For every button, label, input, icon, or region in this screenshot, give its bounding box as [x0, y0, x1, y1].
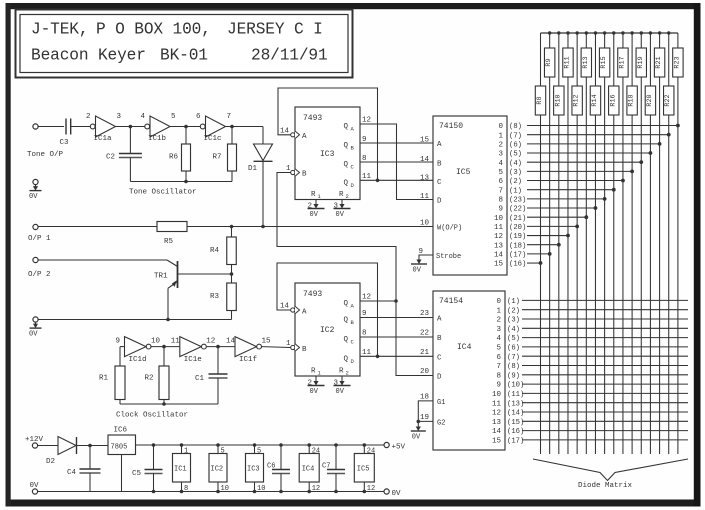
svg-text:(14): (14) [507, 410, 524, 418]
svg-text:Tone Oscillator: Tone Oscillator [129, 189, 197, 197]
node TR1 base junction [230, 272, 234, 276]
svg-text:(7): (7) [507, 354, 520, 362]
svg-text:R19: R19 [637, 56, 645, 68]
resistor R15 [599, 33, 609, 77]
IC4 output 1 pin (2) matrix row wire [496, 307, 688, 315]
svg-text:(6): (6) [507, 345, 520, 353]
inverter IC1d [116, 337, 161, 365]
IC4 output 9 pin (10) matrix row wire [496, 382, 688, 390]
svg-text:(16): (16) [507, 428, 524, 436]
svg-text:2: 2 [86, 113, 91, 121]
svg-text:12: 12 [362, 294, 371, 302]
node C1 junction [216, 345, 220, 349]
svg-text:IC3: IC3 [320, 150, 335, 159]
node +5V bus junction col 13 [658, 31, 661, 34]
svg-text:4: 4 [496, 335, 501, 343]
svg-text:3: 3 [498, 151, 503, 159]
ground 0V below Tone O/P [29, 179, 42, 201]
svg-text:24: 24 [312, 448, 320, 456]
IC3 pin B clock input [286, 165, 307, 179]
wire IC1d out to IC1e [151, 346, 180, 348]
IC3 reset pin 3 ground [334, 200, 351, 220]
svg-text:12: 12 [367, 485, 375, 493]
node R2 junction [162, 345, 166, 349]
svg-text:B: B [302, 346, 307, 354]
wire matrix column R11 down [567, 77, 569, 454]
svg-text:D1: D1 [248, 165, 258, 173]
node +5V bus junction col 4 [575, 31, 578, 34]
svg-text:R21: R21 [655, 56, 663, 68]
IC4 output 5 pin (6) matrix row wire [496, 345, 688, 353]
IC5 input 15 pin (16) wire to matrix column [494, 261, 542, 269]
wire matrix column R21 down [659, 77, 661, 454]
IC4 output 6 pin (7) matrix row wire [496, 354, 688, 362]
capacitor C1 [195, 347, 228, 404]
svg-text:8: 8 [362, 155, 367, 163]
counter IC3 7493 body [295, 107, 360, 200]
node C4 junction [88, 444, 92, 448]
svg-text:3: 3 [334, 203, 339, 211]
IC5 input 2 pin (6) wire to matrix column [498, 141, 661, 149]
node +5V bus junction col 6 [594, 31, 597, 34]
svg-text:15: 15 [420, 137, 430, 145]
svg-text:8: 8 [496, 372, 501, 380]
inverter IC1b [141, 113, 177, 143]
svg-text:R11: R11 [563, 56, 571, 68]
svg-text:R12: R12 [573, 94, 581, 106]
svg-text:B: B [437, 161, 442, 169]
svg-text:C: C [437, 179, 442, 187]
IC5 input 1 pin (7) wire to matrix column [498, 132, 670, 140]
wire IC1a out to IC1b [116, 126, 145, 128]
IC3 pin A clock input [280, 128, 307, 142]
svg-text:24: 24 [367, 448, 375, 456]
IC5 input 9 pin (22) wire to matrix column [498, 206, 597, 214]
svg-text:0V: 0V [413, 267, 422, 275]
svg-text:(5): (5) [507, 335, 520, 343]
svg-text:Clock Oscillator: Clock Oscillator [116, 412, 188, 420]
IC4 output 3 pin (4) matrix row wire [496, 326, 688, 334]
wire matrix column R17 down [622, 77, 624, 454]
IC5 input 10 pin (21) wire to matrix column [494, 215, 588, 223]
node D1 tap [261, 225, 265, 229]
capacitor C5 [132, 443, 163, 493]
svg-text:(21): (21) [509, 215, 526, 223]
svg-text:(5): (5) [509, 151, 522, 159]
svg-text:9: 9 [362, 310, 367, 318]
svg-text:13: 13 [420, 174, 430, 182]
svg-text:(13): (13) [507, 400, 524, 408]
svg-text:7: 7 [496, 363, 501, 371]
svg-text:R16: R16 [609, 94, 617, 106]
IC5 input 11 pin (20) wire to matrix column [494, 224, 579, 232]
svg-text:Q: Q [344, 179, 349, 187]
svg-text:12: 12 [494, 233, 503, 241]
IC5 input 4 pin (4) wire to matrix column [498, 160, 643, 168]
svg-text:14: 14 [494, 251, 504, 259]
wire TR1 base to R4/R3 node [178, 273, 232, 275]
wire matrix column R15 down [604, 77, 606, 454]
svg-text:(1): (1) [509, 187, 522, 195]
svg-text:IC1a: IC1a [94, 135, 113, 143]
terminal +12V input [25, 436, 44, 448]
node +5V bus junction col 8 [612, 31, 615, 34]
svg-text:5: 5 [496, 345, 501, 353]
svg-text:R2: R2 [145, 375, 154, 383]
svg-text:2: 2 [308, 203, 313, 211]
IC4 output 15 pin (17) matrix row wire [492, 438, 688, 446]
wire matrix column R23 down [677, 77, 679, 454]
resistor R17 [618, 33, 628, 77]
svg-text:9: 9 [496, 382, 501, 390]
svg-text:5: 5 [498, 169, 503, 177]
svg-text:(11): (11) [507, 391, 524, 399]
svg-text:3: 3 [496, 326, 501, 334]
svg-text:C1: C1 [195, 375, 205, 383]
node R6 junction [184, 125, 188, 129]
wire +5V distribution line [136, 444, 385, 446]
svg-text:Q: Q [344, 142, 349, 150]
svg-text:IC4: IC4 [457, 343, 472, 352]
svg-text:0V: 0V [310, 388, 319, 396]
svg-text:C: C [437, 354, 442, 362]
svg-text:4: 4 [141, 113, 146, 121]
svg-text:(23): (23) [509, 196, 526, 204]
IC5 input 8 pin (23) wire to matrix column [498, 196, 606, 204]
svg-text:5: 5 [257, 448, 261, 456]
svg-text:Strobe: Strobe [436, 253, 461, 261]
svg-text:Diode Matrix: Diode Matrix [578, 482, 633, 490]
IC4 output 10 pin (11) matrix row wire [492, 391, 688, 399]
IC4 output 8 pin (9) matrix row wire [496, 372, 688, 380]
svg-text:11: 11 [420, 193, 430, 201]
counter IC2 7493 body [295, 283, 360, 377]
IC3 QD feedback wire to pin A [278, 88, 378, 180]
svg-text:R: R [311, 368, 316, 376]
supply pins IC5 [354, 443, 375, 493]
IC4 output 0 pin (1) matrix row wire [496, 298, 688, 306]
IC3 reset pin 2 ground [308, 200, 325, 220]
wire IC1b out to IC1c [170, 126, 200, 128]
svg-text:7: 7 [498, 187, 503, 195]
IC3 pin B wire to IC2 QA [277, 173, 396, 302]
svg-text:11: 11 [362, 349, 372, 357]
svg-text:11: 11 [492, 400, 502, 408]
resistor R4 [210, 227, 236, 275]
svg-text:C6: C6 [267, 463, 275, 471]
svg-text:Q: Q [344, 300, 349, 308]
resistor R19 [636, 33, 646, 77]
resistor R16 [609, 33, 619, 115]
capacitor C7 [322, 443, 345, 493]
wire R5 to IC5 W input [187, 226, 433, 228]
svg-text:10: 10 [494, 215, 504, 223]
IC4 output 7 pin (8) matrix row wire [496, 363, 688, 371]
svg-text:R: R [339, 368, 344, 376]
svg-text:D: D [437, 374, 442, 382]
svg-text:R22: R22 [664, 94, 672, 106]
svg-text:IC4: IC4 [302, 466, 315, 474]
svg-text:28/11/91: 28/11/91 [251, 47, 328, 65]
terminal +5V out [384, 442, 406, 451]
svg-text:(18): (18) [509, 242, 526, 250]
svg-text:(16): (16) [509, 261, 526, 269]
IC5 input 12 pin (19) wire to matrix column [494, 233, 570, 241]
terminal O/P 1 [28, 224, 51, 243]
resistor R14 [590, 33, 600, 115]
svg-text:22: 22 [420, 330, 429, 338]
IC2 QC output wire to IC4 B [360, 330, 433, 338]
svg-text:R4: R4 [210, 247, 220, 255]
IC5 input 3 pin (5) wire to matrix column [498, 151, 652, 159]
svg-text:(2): (2) [509, 178, 522, 186]
svg-text:BK-01: BK-01 [160, 47, 208, 65]
svg-text:1: 1 [184, 448, 188, 456]
svg-text:0V: 0V [310, 211, 319, 219]
svg-text:D2: D2 [46, 458, 55, 466]
resistor R3 [210, 274, 236, 320]
wire matrix column R12 down [576, 115, 578, 454]
svg-text:15: 15 [262, 338, 272, 346]
capacitor C6 [267, 443, 290, 493]
svg-text:(3): (3) [509, 169, 522, 177]
IC3 QA output wire to IC5 D [360, 117, 433, 200]
svg-text:(20): (20) [509, 224, 526, 232]
svg-text:B: B [302, 171, 307, 179]
node +5V bus junction col 5 [585, 31, 588, 34]
svg-text:10: 10 [151, 338, 161, 346]
svg-text:7: 7 [227, 113, 232, 121]
svg-text:R1: R1 [99, 375, 109, 383]
wire matrix column R14 down [594, 115, 596, 454]
IC5 input 13 pin (18) wire to matrix column [494, 242, 561, 250]
svg-text:R: R [311, 191, 316, 199]
svg-text:8: 8 [498, 196, 503, 204]
capacitor C2 [106, 127, 142, 182]
IC4 output 13 pin (15) matrix row wire [492, 419, 688, 427]
svg-text:1: 1 [286, 340, 291, 348]
svg-text:R17: R17 [618, 56, 626, 68]
IC5 input 0 pin (8) wire to matrix column [498, 123, 679, 131]
svg-text:(4): (4) [507, 326, 520, 334]
IC4 output 2 pin (3) matrix row wire [496, 317, 688, 325]
svg-text:(2): (2) [507, 307, 520, 315]
svg-text:R15: R15 [600, 56, 608, 68]
svg-text:IC5: IC5 [357, 466, 370, 474]
svg-text:Tone O/P: Tone O/P [27, 151, 64, 159]
IC5 input 6 pin (2) wire to matrix column [498, 178, 624, 186]
svg-text:R23: R23 [673, 56, 681, 68]
supply pins IC2 [209, 443, 229, 493]
svg-text:9: 9 [498, 206, 503, 214]
svg-text:0: 0 [496, 298, 501, 306]
svg-text:Q: Q [344, 355, 349, 363]
svg-text:4: 4 [498, 160, 503, 168]
inverter IC1a [86, 113, 122, 143]
resistor R18 [627, 33, 637, 115]
wire TR1 emitter to 0V rail [167, 288, 169, 319]
resistor R9 [544, 33, 554, 77]
IC3 QD output wire to IC5 C [360, 173, 433, 181]
svg-text:7805: 7805 [111, 444, 128, 452]
svg-text:IC1e: IC1e [184, 356, 202, 364]
svg-text:(22): (22) [509, 206, 526, 214]
wire D2 to IC6 [77, 445, 109, 447]
svg-text:(8): (8) [509, 123, 522, 131]
IC5 input 14 pin (17) wire to matrix column [494, 251, 552, 259]
svg-text:14: 14 [492, 428, 502, 436]
terminal 0V bottom right [384, 489, 401, 498]
svg-text:7493: 7493 [303, 114, 322, 123]
svg-text:C5: C5 [132, 470, 142, 478]
IC2 reset pin 3 ground [334, 376, 351, 396]
svg-text:9: 9 [362, 136, 367, 144]
title text line 2 [31, 47, 328, 65]
svg-text:A: A [302, 308, 307, 316]
resistor R22 [664, 33, 674, 115]
svg-text:Q: Q [344, 336, 349, 344]
node IC2 QA junction with IC3 B wire [394, 299, 398, 303]
svg-text:IC1c: IC1c [204, 135, 222, 143]
resistor R21 [654, 33, 664, 77]
wire matrix column R19 down [640, 77, 642, 454]
svg-text:0: 0 [498, 123, 503, 131]
svg-text:A: A [437, 316, 442, 324]
resistor R13 [581, 33, 591, 77]
svg-text:IC1d: IC1d [129, 356, 147, 364]
resistor R2 (clock osc) [145, 347, 170, 404]
svg-text:(9): (9) [507, 372, 520, 380]
svg-text:Q: Q [344, 123, 349, 131]
svg-text:14: 14 [420, 156, 430, 164]
IC2 QB output wire to IC4 A [360, 310, 433, 318]
svg-text:IC1: IC1 [174, 466, 187, 474]
svg-text:G2: G2 [437, 419, 445, 427]
svg-text:IC3: IC3 [247, 466, 260, 474]
node R2 bottom junction [162, 402, 166, 406]
svg-text:R14: R14 [591, 94, 599, 106]
svg-text:R18: R18 [628, 94, 636, 106]
svg-text:IC1b: IC1b [148, 135, 166, 143]
wire matrix column R8 down [540, 115, 542, 454]
svg-text:2: 2 [496, 317, 501, 325]
IC5 input 7 pin (1) wire to matrix column [498, 187, 615, 195]
IC4 output 14 pin (16) matrix row wire [492, 428, 688, 436]
svg-text:R: R [339, 191, 344, 199]
svg-text:JERSEY C I: JERSEY C I [227, 21, 323, 39]
wire tone oscillator bottom rail [130, 181, 232, 183]
svg-text:(8): (8) [507, 363, 520, 371]
wire matrix column R18 down [631, 115, 633, 454]
svg-text:R6: R6 [169, 154, 179, 162]
svg-text:0V: 0V [412, 434, 421, 442]
title text line 1 [31, 21, 323, 39]
IC5 strobe ground [411, 255, 433, 275]
diode D1 [248, 127, 273, 174]
node +5V bus junction col 1 [548, 31, 551, 34]
svg-text:R20: R20 [646, 94, 654, 106]
svg-text:J-TEK,: J-TEK, [31, 21, 88, 39]
IC2 reset pin 2 ground [308, 376, 325, 396]
svg-text:R10: R10 [554, 94, 562, 106]
svg-text:W(O/P): W(O/P) [437, 225, 462, 233]
svg-text:Q: Q [344, 161, 349, 169]
IC2 QA output wire down to IC4 D [360, 294, 433, 376]
svg-text:15: 15 [494, 261, 504, 269]
svg-text:C2: C2 [106, 154, 115, 162]
svg-text:R3: R3 [210, 293, 220, 301]
IC3 QB output wire to IC5 A [360, 136, 433, 144]
svg-text:C4: C4 [67, 469, 77, 477]
svg-text:23: 23 [420, 310, 430, 318]
node +5V bus junction col 11 [640, 31, 643, 34]
svg-text:12: 12 [362, 117, 371, 125]
svg-text:(17): (17) [509, 251, 526, 259]
node C2 junction [129, 125, 133, 129]
node +5V bus junction col 2 [557, 31, 560, 34]
supply pins IC1 [173, 443, 191, 493]
wire IC1e out to IC1f [207, 346, 235, 348]
svg-text:IC5: IC5 [456, 168, 471, 177]
wire matrix column R22 down [668, 115, 670, 454]
multiplexer IC5 74150 body [433, 116, 507, 275]
wire O/P2 to TR1 collector [38, 259, 167, 261]
capacitor C3 [60, 119, 71, 148]
svg-text:R8: R8 [536, 96, 544, 104]
diode D2 [46, 437, 77, 467]
svg-text:A: A [437, 141, 442, 149]
svg-text:C3: C3 [60, 139, 70, 147]
svg-text:6: 6 [196, 113, 201, 121]
node +5V bus junction col 12 [649, 31, 652, 34]
node R4 tap [230, 225, 234, 229]
svg-text:(10): (10) [507, 382, 524, 390]
svg-text:C7: C7 [322, 463, 330, 471]
svg-text:13: 13 [492, 419, 502, 427]
svg-text:1: 1 [496, 307, 501, 315]
svg-text:1: 1 [286, 165, 291, 173]
supply pins IC3 [246, 443, 266, 493]
svg-text:R9: R9 [545, 58, 553, 66]
svg-text:R7: R7 [213, 154, 222, 162]
capacitor C4 [67, 446, 101, 492]
resistor R8 [535, 33, 545, 115]
svg-text:13: 13 [494, 242, 504, 250]
svg-text:+5V: +5V [392, 444, 406, 452]
svg-text:10: 10 [221, 485, 229, 493]
svg-text:10: 10 [257, 485, 265, 493]
resistor R7 [213, 127, 237, 182]
wire IC6 ground pin [121, 455, 123, 492]
wire clock oscillator bottom rail [120, 403, 218, 405]
svg-text:R13: R13 [582, 56, 590, 68]
resistor R20 [645, 33, 655, 115]
svg-text:12: 12 [206, 338, 215, 346]
svg-text:Beacon Keyer: Beacon Keyer [31, 47, 146, 65]
svg-text:12: 12 [312, 485, 320, 493]
terminal Tone O/P [27, 124, 64, 159]
IC2 QD output wire to IC4 C [360, 349, 433, 357]
svg-text:(7): (7) [509, 132, 522, 140]
svg-text:A: A [302, 133, 307, 141]
svg-text:14: 14 [226, 338, 236, 346]
resistor R5 [157, 222, 187, 247]
node R6 bottom junction [184, 180, 188, 184]
resistor R23 [673, 33, 683, 77]
svg-text:5: 5 [221, 448, 225, 456]
wire C3 to IC1a [71, 126, 90, 128]
svg-text:(6): (6) [509, 141, 522, 149]
